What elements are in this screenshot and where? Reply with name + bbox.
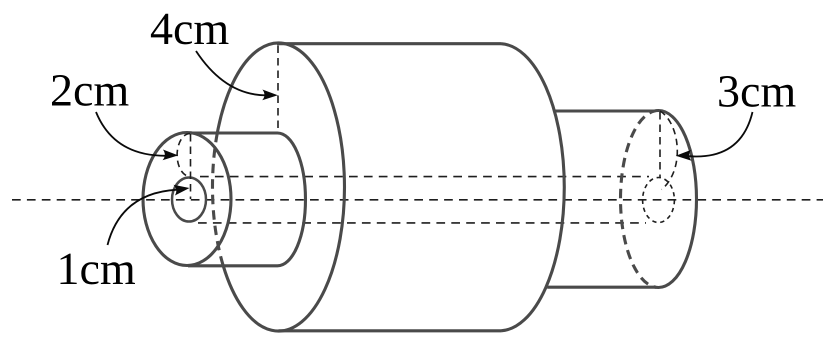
right cylinder bottom line <box>547 286 656 289</box>
right cylinder end ellipse solid right half <box>659 111 697 288</box>
big cylinder 4cm: left face ellipse solid part <box>217 43 344 331</box>
label 1cm <box>61 254 136 285</box>
label 3cm <box>719 76 795 107</box>
big cylinder top line <box>277 42 501 45</box>
hole outline at right end (dashed ellipse) <box>643 178 675 223</box>
big cylinder: left face hidden arc behind small cylinder (dashed) <box>212 133 223 266</box>
small cylinder 2cm top line <box>188 131 278 134</box>
right cylinder end ellipse hidden left half (dashed) <box>621 111 659 288</box>
label 4cm <box>151 14 229 45</box>
hole lower silhouette line <box>198 222 646 224</box>
4cm radius dashed line <box>277 46 279 132</box>
3cm dashed curve <box>660 111 677 190</box>
right cylinder 3cm top line <box>556 109 656 112</box>
small cylinder right face arc <box>278 133 306 266</box>
arrow for 4cm label <box>196 51 266 95</box>
small cylinder bottom line <box>188 264 278 267</box>
small cylinder left face ellipse <box>143 133 231 266</box>
axis centerline <box>12 199 823 201</box>
arrow for 3cm label <box>689 112 753 156</box>
label 2cm <box>52 75 129 106</box>
big cylinder right face arc <box>501 44 564 331</box>
3cm radius dashed line <box>659 112 661 178</box>
big cylinder bottom line <box>279 329 502 332</box>
2cm dashed arc <box>177 134 190 177</box>
2cm radius dashed line <box>190 134 192 199</box>
hole ellipse on left face (1cm) <box>172 178 206 222</box>
arrow for 1cm label <box>108 190 178 245</box>
hole upper silhouette line <box>200 176 649 178</box>
arrow for 2cm label <box>96 112 166 156</box>
